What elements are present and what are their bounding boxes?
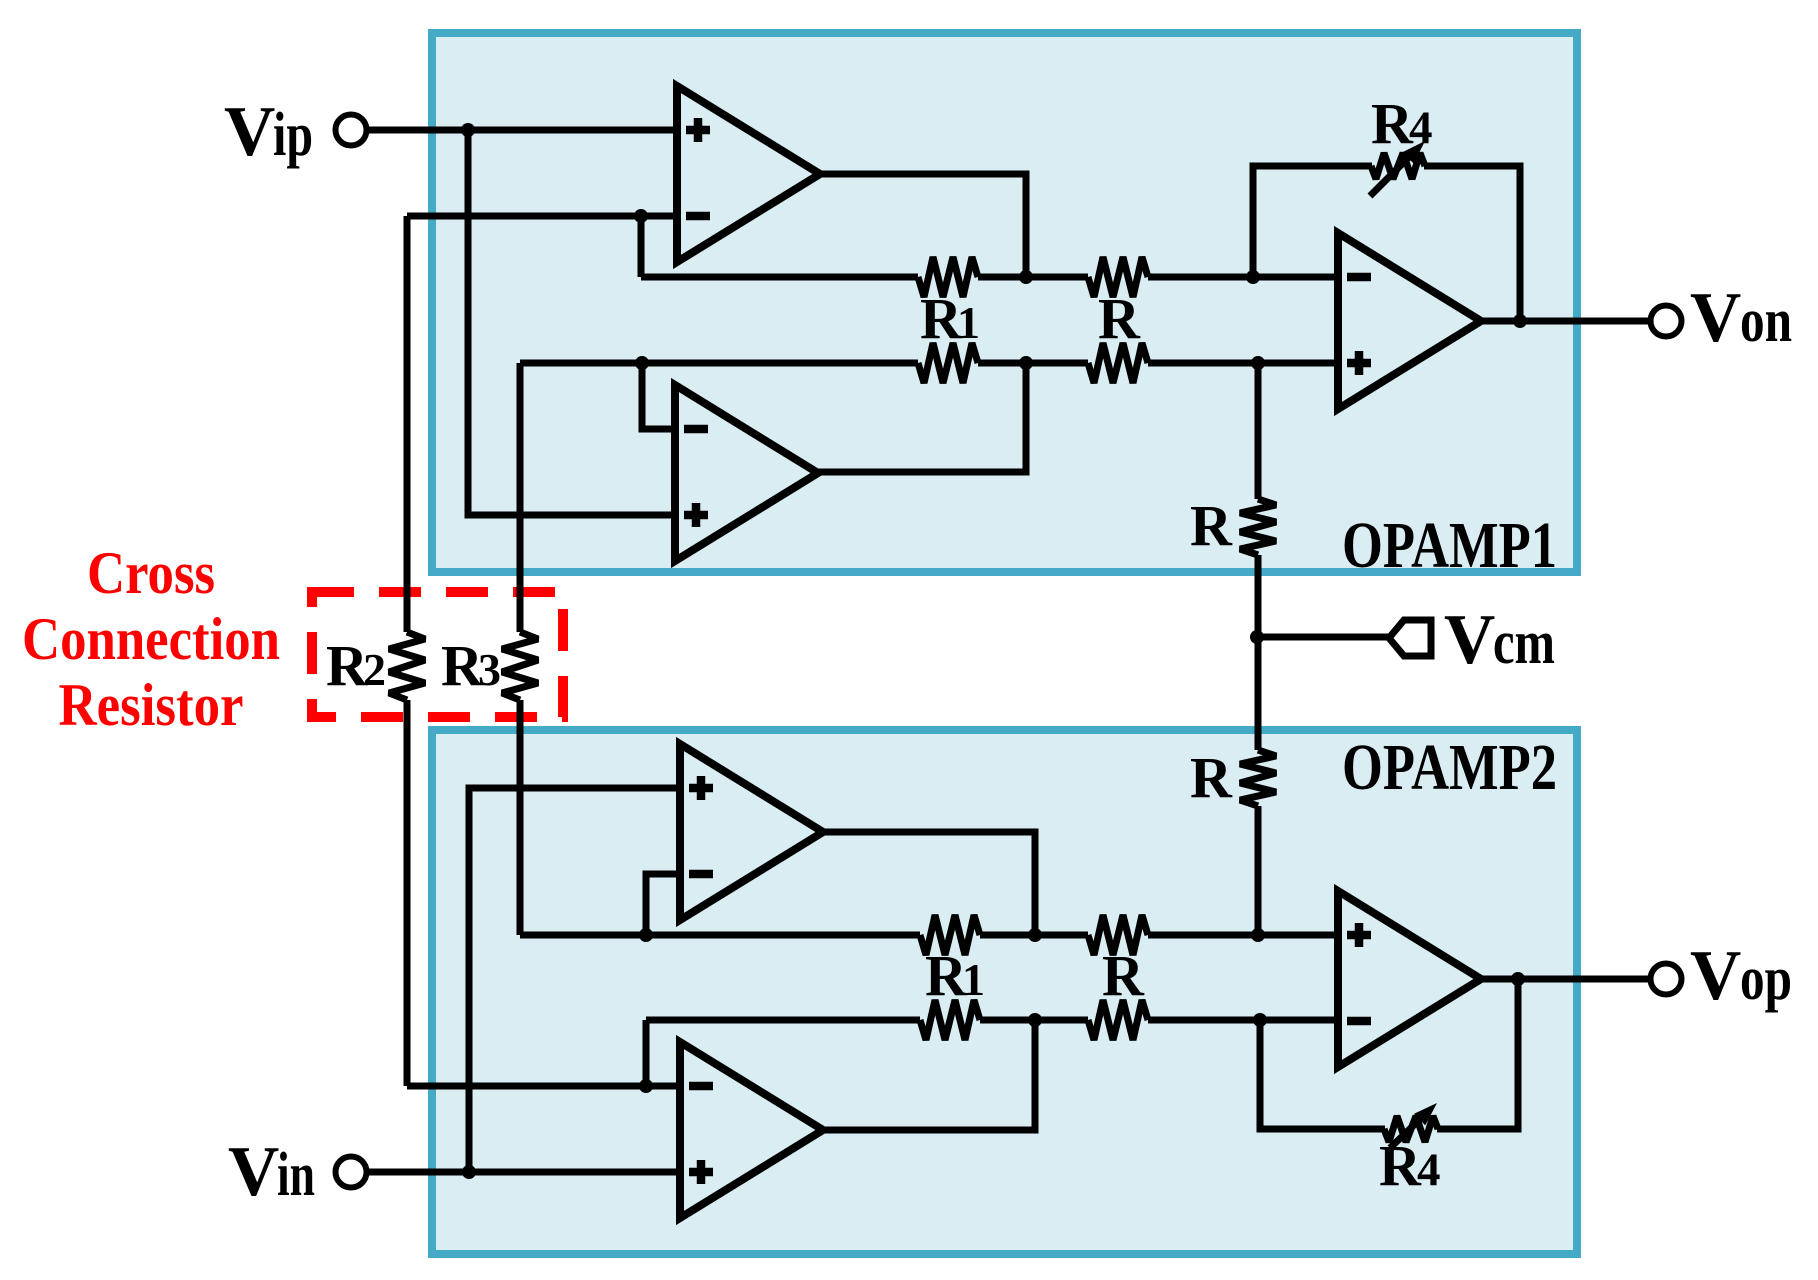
op-amp B2 (OPAMP2 lower input buffer)	[680, 1042, 823, 1218]
op-amp U3 (OPAMP1 output stage)	[1338, 233, 1481, 409]
resistor R2 (cross connection)	[389, 632, 425, 700]
terminal Von	[1651, 306, 1682, 337]
wire row C left	[520, 932, 920, 939]
wire A1 - input row	[407, 213, 677, 220]
junction A2 inverting node	[635, 356, 649, 370]
resistor R1 (row D)	[920, 1000, 980, 1040]
svg-text:Resistor: Resistor	[59, 672, 244, 738]
wire row C right	[1148, 932, 1338, 939]
op-amp A2 (OPAMP1 lower input buffer)	[675, 385, 818, 561]
resistor R4 variable (OPAMP2 feedback)	[1384, 1116, 1438, 1142]
wire row A left	[641, 274, 918, 281]
resistor R (row D)	[1088, 1000, 1148, 1040]
svg-text:OPAMP1: OPAMP1	[1342, 509, 1557, 582]
wire common-mode chain upper	[1255, 363, 1262, 499]
svg-text:1: 1	[962, 954, 985, 1005]
wire common-mode chain middle	[1255, 555, 1262, 750]
wire B1 output	[823, 832, 1035, 935]
wire R4 feedback right (OPAMP1)	[1424, 166, 1520, 321]
svg-text:V: V	[224, 93, 275, 171]
wire R2 branch upper	[404, 216, 411, 632]
resistor R (row C)	[1088, 915, 1148, 955]
svg-text:3: 3	[478, 644, 501, 695]
wire stub A1 - to row A	[638, 216, 645, 277]
wire Vin vertical to B1 + input	[469, 788, 680, 1172]
junction B1 output node	[1028, 928, 1042, 942]
junction Von output node	[1513, 314, 1527, 328]
junction Vip node	[461, 123, 475, 137]
junction A2 output node	[1019, 356, 1033, 370]
wire R4 feedback left (OPAMP2)	[1260, 1020, 1385, 1129]
wire row A middle	[978, 274, 1088, 281]
resistor R (lower common-mode)	[1240, 750, 1276, 806]
junction Vcm node	[1250, 630, 1264, 644]
wire stub B2 - input to row D	[643, 1020, 650, 1086]
wire A1 output	[820, 174, 1026, 277]
resistor R4 variable (OPAMP1 feedback)	[1371, 153, 1425, 179]
svg-text:R: R	[1102, 943, 1145, 1008]
svg-text:R: R	[1190, 745, 1233, 810]
svg-text:4: 4	[1409, 102, 1433, 154]
wire stub B1 - input to row C	[646, 874, 680, 935]
wire row B left	[520, 360, 918, 367]
op-amp A1 (OPAMP1 upper input buffer)	[677, 86, 820, 262]
junction A1 inverting node	[634, 209, 648, 223]
cross-connection resistor highlight box (red dashed)	[312, 592, 563, 717]
junction U3 inverting node	[1246, 270, 1260, 284]
svg-text:V: V	[228, 1133, 279, 1211]
svg-text:in: in	[277, 1141, 315, 1209]
svg-text:OPAMP2: OPAMP2	[1342, 731, 1557, 804]
wire stub row B to A2 - input	[642, 363, 675, 429]
svg-text:R: R	[1190, 493, 1233, 558]
junction row C / common-mode chain	[1251, 928, 1265, 942]
svg-text:R: R	[1379, 1133, 1422, 1198]
terminal Vip	[336, 115, 367, 146]
wire B2 output	[823, 1020, 1035, 1130]
svg-text:op: op	[1740, 945, 1792, 1013]
wire R3 branch lower	[517, 700, 524, 935]
wire B2 - input row	[407, 1083, 680, 1090]
op-amp U6 (OPAMP2 output stage)	[1338, 891, 1481, 1067]
wire row A right	[1148, 274, 1338, 281]
svg-text:V: V	[1690, 937, 1741, 1015]
svg-text:R: R	[1371, 91, 1414, 156]
resistor R (upper common-mode)	[1240, 499, 1276, 555]
wire R3 branch upper	[517, 363, 524, 632]
junction A1 output node	[1019, 270, 1033, 284]
wire row C middle	[980, 932, 1088, 939]
wire R4 feedback left (OPAMP1)	[1253, 166, 1372, 277]
junction Vop output node	[1511, 972, 1525, 986]
OPAMP2 block box	[432, 730, 1577, 1254]
terminal Vin	[336, 1157, 367, 1188]
resistor R (row A)	[1088, 257, 1148, 297]
wire U6 output to Vop	[1481, 976, 1651, 983]
resistor R1 (row C)	[920, 915, 980, 955]
resistor R1 (row A)	[918, 257, 978, 297]
svg-text:1: 1	[957, 297, 980, 348]
op-amp B1 (OPAMP2 upper input buffer)	[680, 744, 823, 920]
wire R4 feedback right (OPAMP2)	[1437, 979, 1518, 1129]
wire row D left	[646, 1017, 920, 1024]
svg-text:Cross: Cross	[87, 540, 215, 606]
svg-text:V: V	[1444, 601, 1495, 679]
resistor R1 (row B)	[918, 343, 978, 383]
wire row D right	[1148, 1017, 1338, 1024]
resistor R3 (cross connection)	[502, 632, 538, 700]
OPAMP1 block box	[432, 33, 1577, 572]
junction row B / common-mode chain	[1251, 356, 1265, 370]
junction B2 inverting node	[639, 1079, 653, 1093]
junction B1 inverting node	[639, 928, 653, 942]
wire R2 branch lower	[404, 700, 411, 1086]
wire row D middle	[980, 1017, 1088, 1024]
wire Vip input row	[368, 127, 677, 134]
connector Vcm (flag)	[1389, 620, 1431, 656]
wire row B middle	[978, 360, 1088, 367]
resistor R (row B)	[1088, 343, 1148, 383]
wire A2 output	[818, 363, 1026, 472]
svg-text:ip: ip	[273, 101, 313, 169]
wire Vip vertical to A2 + input	[468, 130, 675, 515]
junction U6 inverting node	[1253, 1013, 1267, 1027]
svg-text:2: 2	[363, 644, 386, 695]
svg-text:4: 4	[1417, 1144, 1441, 1196]
svg-text:cm: cm	[1493, 609, 1555, 677]
wire common-mode chain lower	[1255, 806, 1262, 935]
junction Vin node	[462, 1165, 476, 1179]
wire row B right	[1148, 360, 1338, 367]
svg-text:R: R	[1098, 286, 1141, 351]
wire U3 output to Von	[1481, 318, 1651, 325]
svg-text:Connection: Connection	[22, 606, 280, 672]
svg-text:V: V	[1690, 279, 1741, 357]
terminal Vop	[1651, 964, 1682, 995]
junction B2 output node	[1028, 1013, 1042, 1027]
wire Vcm tap	[1258, 634, 1390, 641]
label: Cross Connection Resistor	[22, 540, 280, 738]
wire Vin input row	[368, 1169, 680, 1176]
svg-text:on: on	[1740, 287, 1792, 355]
